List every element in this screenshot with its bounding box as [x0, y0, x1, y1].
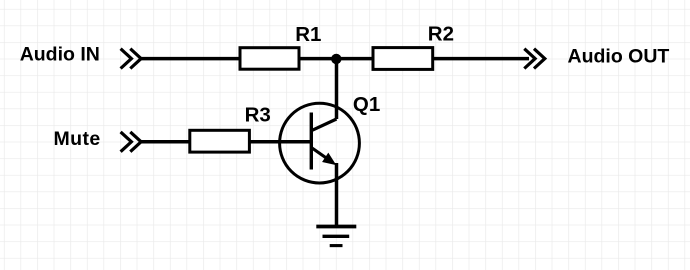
- wire: R1 to node: [299, 57, 336, 61]
- wire: Mute port to R3: [140, 140, 190, 144]
- wire: R2 to output port: [433, 57, 529, 61]
- wire: R3 to Q1 base: [249, 140, 311, 144]
- node junction dot: [331, 54, 341, 64]
- output port chevron (Audio OUT): [524, 49, 545, 69]
- transistor Q1 body circle: [280, 103, 360, 183]
- transistor Q1 collector lead: [311, 119, 336, 131]
- resistor R1: [240, 48, 299, 69]
- svg-text:Q1: Q1: [353, 93, 380, 116]
- wire: node to Q1 collector: [335, 59, 339, 119]
- svg-text:R3: R3: [245, 104, 271, 127]
- resistor R2: [373, 48, 433, 70]
- transistor Q1 emitter lead: [311, 148, 332, 163]
- input port chevron (Mute): [121, 132, 142, 152]
- svg-text:R2: R2: [428, 23, 454, 46]
- svg-text:Mute: Mute: [54, 128, 101, 150]
- resistor R3: [190, 130, 250, 152]
- svg-text:Audio IN: Audio IN: [20, 44, 100, 66]
- wire: Audio IN port to R1: [140, 57, 241, 61]
- ground symbol: [316, 227, 356, 246]
- input port chevron (Audio IN): [121, 49, 142, 69]
- wire: Q1 emitter to ground: [335, 163, 339, 227]
- svg-text:R1: R1: [295, 23, 321, 46]
- svg-text:Audio OUT: Audio OUT: [568, 46, 670, 68]
- transistor Q1 emitter arrowhead: [323, 154, 335, 165]
- transistor Q1 base bar: [310, 113, 313, 170]
- wire: node to R2: [336, 57, 373, 61]
